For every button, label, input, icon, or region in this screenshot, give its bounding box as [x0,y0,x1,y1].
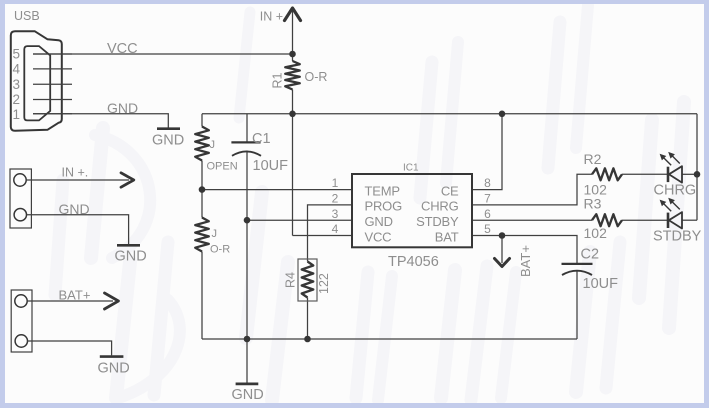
wire pin3 GND [247,219,352,221]
svg-text:J: J [210,139,216,151]
resistor R2 102 [592,168,622,180]
svg-text:VCC: VCC [365,229,392,244]
node GND pin/C1 junction [244,217,251,224]
wire C2 bottom to ground rail [576,270,578,339]
svg-text:6: 6 [484,207,491,221]
svg-text:GND: GND [365,214,393,229]
svg-text:R2: R2 [584,151,602,167]
svg-text:CE: CE [441,183,459,198]
wire pin8 CE to top rail [472,114,502,190]
USB pin 2 stub [33,99,72,101]
svg-text:GND: GND [98,360,130,376]
wire pin4 VCC [293,235,353,237]
wire bottom GND drop [246,339,248,383]
wire BAT+ arrow stem [501,236,503,264]
svg-text:IC1: IC1 [403,162,419,173]
svg-text:R3: R3 [584,196,602,212]
svg-text:IN +.: IN +. [62,166,89,180]
svg-text:R4: R4 [284,272,298,288]
wire pin1 TEMP [202,189,352,191]
svg-text:O-R: O-R [210,244,230,256]
wire right rail vertical [696,114,698,220]
resistor R3 102 [592,214,622,226]
node BAT junction [499,232,506,239]
wire IN+ to arrow [26,179,129,181]
svg-text:7: 7 [484,192,491,206]
wire STDBY led to right rail [682,219,697,221]
wire pin2 PROG to R4 [308,205,353,262]
svg-text:O-R: O-R [305,70,328,84]
svg-text:BAT+: BAT+ [59,288,91,303]
svg-text:4: 4 [13,62,21,77]
svg-text:J: J [212,228,218,240]
ground symbol (USB gnd) [157,127,180,130]
pad X2-2 [15,335,27,347]
svg-text:5: 5 [13,46,21,61]
connector X2 terminal block (BAT+/GND) [11,290,32,352]
USB connector J-USB shell [11,31,62,131]
USB pin 5 stub [33,53,72,55]
svg-text:CHRG: CHRG [654,183,697,199]
node CHRG LED/right rail junction [694,171,701,178]
svg-text:4: 4 [332,222,339,236]
wire pin6 STDBY to R3 [472,219,592,221]
svg-text:3: 3 [332,207,339,221]
svg-text:GND: GND [152,132,184,148]
BAT+ arrow [105,293,119,309]
svg-text:STDBY: STDBY [416,214,459,229]
wire pin5 BAT to C2 [472,236,577,264]
svg-text:122: 122 [317,273,331,294]
svg-text:C2: C2 [581,247,600,263]
node supply rail/CE junction [499,111,506,118]
USB connector inner tongue [24,46,50,120]
wire bottom ground rail [202,338,577,340]
LED STDBY [667,213,670,228]
ground symbol (X1) [117,244,140,247]
wire USB GND from pin1 to ground [33,114,168,128]
svg-text:R1: R1 [271,72,285,88]
svg-text:C1: C1 [252,131,271,147]
USB pin 3 stub [33,83,72,85]
wire C1 branch vertical [246,114,248,143]
node R4/ground rail junction [304,336,311,343]
pad X1-1 [14,174,26,186]
svg-text:TP4056: TP4056 [388,254,439,270]
svg-text:1: 1 [13,107,21,122]
svg-text:STDBY: STDBY [653,228,702,244]
USB pin 1 stub [33,113,72,115]
resistor R4 122 (boxed) [298,259,317,301]
IN+ supply arrow (top) [292,10,294,55]
wire left vertical (jumpers branch) [201,114,203,127]
wire R1 node vertical to VCC pin4 [292,54,294,61]
svg-text:BAT: BAT [435,229,459,244]
svg-text:GND: GND [232,387,264,403]
wire pin7 CHRG to R2 [472,174,592,205]
capacitor C1 10UF [231,141,260,143]
node TEMP/jumpers junction [199,186,206,193]
svg-text:CHRG: CHRG [421,199,459,214]
wire R3 to STDBY led [622,219,667,221]
svg-text:IN +: IN + [260,10,283,24]
svg-text:USB: USB [14,9,40,23]
jumper J 0-R [195,218,209,252]
svg-text:GND: GND [107,100,138,116]
node supply rail/R1 junction [289,111,296,118]
svg-text:TEMP: TEMP [365,183,400,198]
node ground rail/GND junction [244,336,251,343]
BAT+ arrow (down) [495,259,510,267]
ground symbol (main) [236,382,259,385]
svg-text:10UF: 10UF [583,276,619,292]
wire BAT+ to arrow [27,300,113,302]
ground symbol (X2) [100,355,124,358]
jumper J OPEN [195,127,209,161]
svg-text:8: 8 [484,176,491,190]
wire GND to ground [27,215,129,245]
wire X2 GND to ground [28,341,112,355]
wire CHRG led to right rail [682,173,697,175]
resistor R1 0-R [285,61,300,90]
pad X2-1 [15,295,27,307]
svg-text:2: 2 [332,192,339,206]
capacitor C2 10UF [562,263,593,265]
wire R2 to CHRG led [622,173,667,175]
wire R4 bottom to ground rail [307,298,309,340]
svg-text:102: 102 [584,225,608,241]
wire main top rail [202,113,697,115]
svg-text:VCC: VCC [107,41,138,57]
svg-text:OPEN: OPEN [207,160,238,172]
svg-text:2: 2 [13,92,21,107]
LED CHRG [667,167,670,182]
svg-text:1: 1 [332,176,339,190]
op-amp U1 / IC1 TP4056 body [352,174,472,247]
svg-text:10UF: 10UF [253,158,289,174]
USB pin 4 stub [33,68,72,70]
svg-text:GND: GND [115,249,147,265]
svg-text:3: 3 [13,77,21,92]
svg-text:5: 5 [484,222,491,236]
connector X1 terminal block (IN+/GND) [10,169,31,228]
svg-text:PROG: PROG [365,199,403,214]
IN+. arrow [121,173,134,187]
svg-text:BAT+: BAT+ [518,245,533,277]
svg-text:GND: GND [59,201,90,217]
pad X1-2 [14,209,26,221]
node VCC/R1 junction [289,51,296,58]
wire VCC from USB pin5 to R1 top node [33,53,293,55]
